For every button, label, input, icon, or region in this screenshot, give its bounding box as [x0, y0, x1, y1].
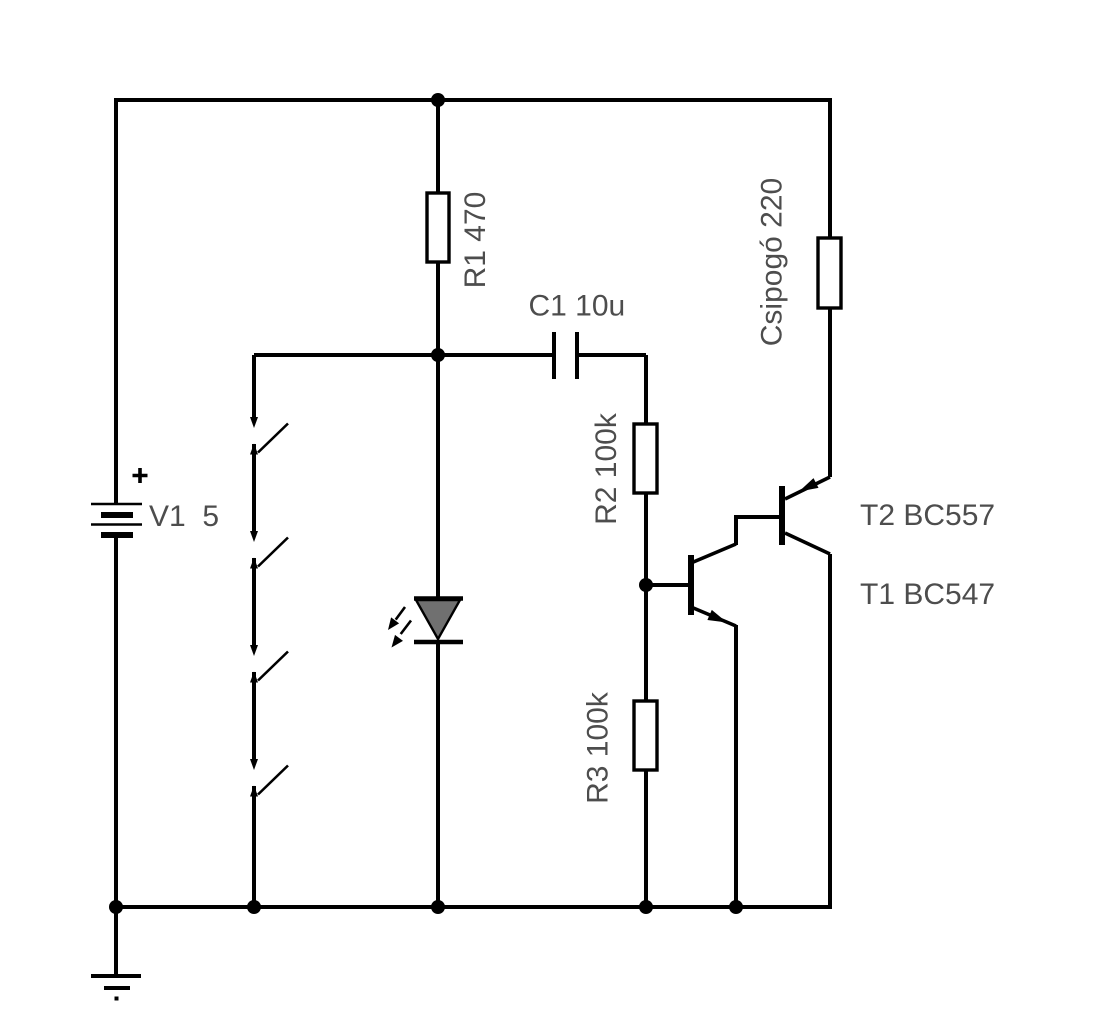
switch S3: [250, 645, 288, 683]
wire base of T1: [646, 583, 688, 587]
wire R1 bottom to node: [436, 262, 440, 355]
wire T2 emitter up to buzzer: [828, 309, 832, 477]
svg-text:T1 BC547: T1 BC547: [860, 578, 995, 611]
wire left rail down to battery: [114, 98, 118, 504]
wire R1 top: [436, 100, 440, 193]
wire top rail from battery + to R1 and buzzer branch: [116, 98, 830, 102]
node junction at top rail: [431, 93, 445, 107]
wire R3 bottom to bottom rail: [644, 770, 648, 907]
svg-text:R2 100k: R2 100k: [590, 412, 623, 525]
svg-text:R3 100k: R3 100k: [582, 691, 615, 804]
LED light arrow 1: [388, 607, 405, 630]
transistor T2 BC557: [782, 477, 830, 554]
wire switch branch seg 5 to bottom rail: [252, 786, 256, 907]
resistor R2: [634, 424, 657, 493]
wire R2 bottom to base node: [644, 493, 648, 585]
wire buzzer branch top: [828, 98, 832, 238]
node junction battery/bottom rail/ground: [109, 900, 123, 914]
switch S2: [250, 531, 288, 569]
svg-text:R1 470: R1 470: [459, 192, 492, 289]
wire T1 emitter to bottom rail: [734, 625, 738, 907]
wire switch branch seg 4: [252, 672, 256, 759]
LED light arrow 2: [392, 621, 412, 648]
wire ground stem: [114, 907, 118, 976]
capacitor C1: [554, 332, 577, 379]
wire bottom rail: [116, 905, 830, 909]
node junction switches/bottom rail: [247, 900, 261, 914]
wire LED anode: [436, 355, 440, 597]
wire C1 right to R2 branch: [577, 355, 646, 424]
node junction at R1/LED/C1: [431, 348, 445, 362]
switch S4: [250, 759, 288, 797]
wire R3 top: [644, 585, 648, 701]
node junction LED/bottom rail: [431, 900, 445, 914]
wire LED cathode to bottom rail: [436, 643, 440, 907]
wire switch branch seg 2: [252, 444, 256, 531]
buzzer Csipogo 220 (resistor body): [818, 238, 841, 308]
node junction T1 emitter/bottom rail: [729, 900, 743, 914]
svg-text:T2 BC557: T2 BC557: [860, 499, 995, 532]
transistor T1 BC547: [691, 544, 736, 626]
node junction R2/R3/base: [639, 578, 653, 592]
wire battery minus down to bottom rail: [114, 535, 118, 907]
resistor R3: [634, 701, 657, 770]
battery V1: [91, 504, 142, 535]
wire T1 collector to T2 base: [734, 517, 780, 545]
wire node row to switches and C1: [254, 353, 554, 357]
wire switch branch seg 3: [252, 558, 256, 645]
svg-text:C1 10u: C1 10u: [529, 290, 626, 323]
svg-text:Csipogó 220: Csipogó 220: [756, 178, 789, 346]
svg-text:V1 5: V1 5: [149, 500, 219, 533]
wire T2 collector down to bottom rail right corner: [828, 554, 832, 909]
resistor R1: [427, 193, 449, 262]
battery plus sign: [133, 468, 148, 483]
node junction R3/bottom rail: [639, 900, 653, 914]
wire switch branch seg 1: [252, 355, 256, 417]
LED D1 (photodiode): [414, 599, 463, 643]
switch S1: [250, 417, 288, 455]
ground: [91, 976, 141, 999]
